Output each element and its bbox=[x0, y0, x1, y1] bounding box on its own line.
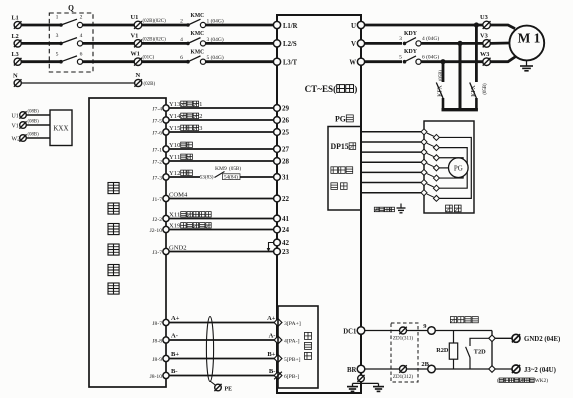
inverter terminal 29 bbox=[274, 105, 290, 113]
svg-text:(: ( bbox=[497, 377, 499, 384]
PG divider terminal 4[PA-] bbox=[274, 336, 300, 344]
svg-text:Y15: Y15 bbox=[169, 125, 181, 132]
wire node 2B to right edge bbox=[435, 368, 492, 370]
wire DP15 pin 2 to shield connector bbox=[362, 141, 421, 143]
svg-text:W: W bbox=[349, 59, 356, 67]
PG divider terminal 5[PB+] bbox=[274, 355, 301, 363]
inverter terminal 23 bbox=[274, 248, 290, 256]
svg-text:28: 28 bbox=[282, 158, 290, 166]
wire U1 to KXX bbox=[26, 114, 50, 116]
svg-text:B+: B+ bbox=[267, 351, 275, 358]
terminal GND2 (04E) bbox=[512, 334, 561, 343]
svg-text:Y14: Y14 bbox=[169, 113, 181, 120]
wire V1 to KXX bbox=[26, 124, 50, 126]
encoder wire B+ (J8-9 to 5[PB+]) bbox=[169, 358, 274, 360]
svg-text:N: N bbox=[136, 72, 141, 79]
svg-text:L2: L2 bbox=[12, 33, 19, 40]
inverter terminal 31 bbox=[274, 174, 290, 182]
junction V phase bbox=[457, 41, 462, 46]
terminal J8-10 on control unit bbox=[150, 372, 169, 379]
resistor R2D bbox=[436, 331, 457, 370]
svg-text:J2-10: J2-10 bbox=[150, 228, 163, 234]
svg-text:3: 3 bbox=[56, 33, 59, 39]
svg-text:WK2): WK2) bbox=[535, 377, 549, 384]
svg-text:L3: L3 bbox=[12, 51, 20, 58]
shielded twisted cable bbox=[206, 317, 213, 382]
svg-text:J3~2 (04U): J3~2 (04U) bbox=[524, 366, 557, 374]
svg-text:PG: PG bbox=[454, 165, 463, 173]
control wire Y15多段速3 (J7-6 to terminal 25) bbox=[169, 131, 274, 133]
svg-text:Y10: Y10 bbox=[169, 142, 181, 149]
svg-text:V3: V3 bbox=[480, 33, 489, 40]
svg-text:J1-7: J1-7 bbox=[152, 197, 162, 203]
wire U1 to contactor KMC bbox=[142, 24, 187, 27]
wire U to U3 bbox=[365, 24, 483, 27]
label connect motor ground + earth bbox=[374, 204, 405, 213]
wire BR to ZD1(312) bbox=[365, 368, 400, 370]
terminal N bbox=[13, 73, 21, 87]
inverter terminal 28 bbox=[274, 158, 290, 166]
breaker Q pole contact 5-6 bbox=[56, 51, 83, 64]
svg-text:X11: X11 bbox=[169, 212, 180, 219]
wire L2 to breaker Q pole 2 bbox=[21, 42, 61, 45]
svg-text:(05B): (05B) bbox=[229, 165, 241, 172]
control wire Y12使能 (J7-3 to terminal 31) bbox=[169, 176, 200, 178]
wire to GND2 bbox=[495, 337, 511, 339]
svg-text:24: 24 bbox=[282, 226, 290, 234]
control wire Y13多段速1 (J7-4 to terminal 29) bbox=[169, 107, 274, 109]
inverter terminal 41 bbox=[274, 215, 290, 223]
svg-text:(08B): (08B) bbox=[28, 110, 40, 115]
inverter terminal 42 bbox=[274, 239, 290, 247]
svg-text:KMC: KMC bbox=[191, 31, 205, 37]
connector pin right 6 bbox=[433, 185, 439, 191]
encoder wire A- (J8-8 to 4[PA-]) bbox=[169, 339, 274, 341]
pin link 2 bbox=[427, 143, 434, 146]
svg-text:A+: A+ bbox=[171, 315, 180, 322]
terminal L2 bbox=[12, 33, 22, 47]
svg-text:(02B)(02C): (02B)(02C) bbox=[143, 19, 167, 24]
connector pin right 1 bbox=[433, 134, 439, 140]
svg-text:4: 4 bbox=[180, 37, 183, 43]
pin link 6 bbox=[427, 184, 434, 187]
connector pin left 5 bbox=[421, 169, 427, 175]
svg-text:A-: A- bbox=[171, 333, 178, 340]
terminal below BR bbox=[358, 375, 365, 382]
svg-text:(02B): (02B) bbox=[144, 82, 156, 87]
svg-text:J7-5: J7-5 bbox=[152, 118, 162, 124]
inverter terminal DC1 bbox=[343, 327, 365, 336]
svg-text:L1/R: L1/R bbox=[283, 22, 298, 30]
svg-text:6: 6 bbox=[80, 51, 83, 57]
svg-text:2: 2 bbox=[80, 15, 83, 21]
PG divider terminal 3[PA+] bbox=[274, 319, 301, 327]
svg-text:J3-7: J3-7 bbox=[152, 250, 162, 256]
svg-text:1: 1 bbox=[199, 101, 202, 108]
node 2B bbox=[421, 361, 435, 373]
terminal J7-5 on control unit bbox=[152, 117, 169, 124]
pin link 1 bbox=[427, 133, 434, 136]
contact KM9 53(83)-54(84) bbox=[200, 165, 242, 181]
svg-text:BR: BR bbox=[347, 366, 357, 374]
star-seal bus bar bbox=[442, 108, 478, 111]
terminal on brake module top bbox=[489, 335, 496, 342]
svg-text:(05B): (05B) bbox=[483, 83, 488, 95]
label fen pin qi (vertical) bbox=[305, 332, 312, 339]
label ping bi (shield) bbox=[446, 205, 453, 212]
terminal J2-10 on control unit bbox=[150, 226, 169, 233]
inverter terminal L2/S bbox=[273, 40, 296, 48]
PG divider terminal 6[PB-] bbox=[274, 372, 299, 380]
svg-text:22: 22 bbox=[282, 195, 290, 203]
control wire Y11下行 (J7-2 to terminal 28) bbox=[169, 160, 274, 162]
svg-text:KXX: KXX bbox=[53, 125, 68, 133]
svg-text:3 (04G): 3 (04G) bbox=[207, 36, 224, 43]
terminal U1 (02B)(02C) bbox=[131, 14, 167, 29]
plug enclosure ZD1 (dashed) bbox=[391, 323, 418, 382]
svg-text:23: 23 bbox=[282, 248, 290, 256]
svg-text:DC1: DC1 bbox=[343, 327, 357, 335]
wire U phase down to contact KFX bbox=[475, 25, 478, 82]
svg-text:Q: Q bbox=[68, 4, 74, 13]
connector pin right 5 bbox=[433, 175, 439, 181]
wire U3 to motor bbox=[490, 25, 515, 29]
inverter terminal L1/R bbox=[273, 21, 298, 29]
wire node 9 to right edge bbox=[435, 330, 492, 332]
svg-text:KDY: KDY bbox=[404, 49, 418, 55]
svg-text:27: 27 bbox=[282, 146, 290, 154]
inverter terminal 22 bbox=[274, 195, 290, 203]
inverter terminal 25 bbox=[274, 129, 290, 137]
svg-text:(05B): (05B) bbox=[439, 70, 444, 82]
terminal J2-2 on control unit bbox=[152, 215, 169, 222]
contactor KMC contact 2-1 (04G) bbox=[180, 13, 224, 28]
terminal U1 (08B) bbox=[12, 110, 40, 120]
svg-text:U3: U3 bbox=[480, 14, 489, 21]
encoder PG bbox=[449, 158, 469, 178]
svg-text:J8-8: J8-8 bbox=[152, 338, 162, 344]
inverter terminal 27 bbox=[274, 146, 290, 154]
svg-text:Y12: Y12 bbox=[169, 170, 180, 177]
contact KDY 3-4 (04G) bbox=[399, 31, 439, 46]
svg-text:COM4: COM4 bbox=[169, 192, 188, 199]
wire DP15 pin 6 to shield connector bbox=[362, 182, 421, 184]
PG card DP15 interface box bbox=[328, 127, 361, 211]
wire W to KDY bbox=[365, 60, 402, 63]
svg-text:KFX: KFX bbox=[471, 84, 477, 96]
inverter output terminal V bbox=[351, 40, 365, 48]
svg-text:54(84): 54(84) bbox=[224, 174, 238, 181]
svg-text:V: V bbox=[351, 40, 356, 48]
svg-text:J7-6: J7-6 bbox=[152, 130, 162, 136]
encoder wiring loop middle bbox=[439, 148, 467, 189]
pin link 5 bbox=[427, 174, 434, 177]
encoder wire B- (J8-10 to 6[PB-]) bbox=[169, 375, 274, 377]
cable shield drain to PE bbox=[210, 381, 216, 385]
terminal V1 (08B) bbox=[12, 120, 40, 130]
svg-text:W3: W3 bbox=[480, 51, 490, 58]
junction U phase bbox=[474, 22, 479, 27]
svg-text:J7-2: J7-2 bbox=[152, 159, 162, 165]
svg-text:L2/S: L2/S bbox=[283, 40, 297, 48]
motor ground bbox=[526, 60, 528, 66]
svg-text:25: 25 bbox=[282, 129, 290, 137]
ground (left of BR) bbox=[352, 383, 354, 386]
inverter output terminal U bbox=[351, 21, 365, 29]
control wire Y14多段速2 (J7-5 to terminal 26) bbox=[169, 119, 274, 121]
terminal PE bbox=[214, 384, 232, 393]
svg-text:PE: PE bbox=[225, 386, 233, 393]
wire DP15 pin 1 to shield connector bbox=[362, 131, 421, 133]
inverter terminal BR bbox=[347, 365, 365, 374]
svg-text:KFX: KFX bbox=[438, 84, 444, 96]
label wei ji kong zhi dan yuan (vertical) bbox=[108, 183, 119, 194]
breaker Q pole contact 3-4 bbox=[56, 33, 83, 46]
relay box KXX bbox=[50, 110, 72, 146]
terminal L3 bbox=[12, 51, 22, 65]
terminal W1 (01C) bbox=[131, 51, 155, 66]
svg-text:5[PB+]: 5[PB+] bbox=[284, 357, 301, 363]
terminal J1-7 on control unit bbox=[152, 195, 169, 202]
svg-text:29: 29 bbox=[282, 105, 290, 113]
svg-text:26: 26 bbox=[282, 117, 290, 125]
wire V1 to contactor KMC bbox=[142, 42, 187, 45]
svg-text:(01C): (01C) bbox=[143, 56, 155, 61]
svg-text:J8-10: J8-10 bbox=[150, 374, 163, 380]
svg-text:U: U bbox=[351, 22, 356, 30]
svg-text:(02B)(02C): (02B)(02C) bbox=[143, 37, 167, 42]
svg-text:KM9: KM9 bbox=[215, 166, 227, 172]
terminal J7-2 on control unit bbox=[152, 158, 169, 165]
pin link 4 bbox=[427, 163, 434, 166]
wire to J3~2 bbox=[495, 368, 511, 370]
thermal contact T2D bbox=[466, 338, 492, 369]
ground (right of BR) bbox=[378, 383, 380, 386]
svg-text:L1: L1 bbox=[12, 15, 19, 22]
svg-text:T2D: T2D bbox=[474, 349, 486, 356]
control wire COM4 (J1-7 to terminal 22) bbox=[169, 198, 274, 200]
wire breaker to terminal V1 bbox=[83, 42, 135, 45]
wire W2 to KXX bbox=[26, 137, 50, 139]
svg-text:31: 31 bbox=[282, 174, 290, 182]
svg-text:4[PA-]: 4[PA-] bbox=[284, 338, 300, 344]
svg-text:Y13: Y13 bbox=[169, 101, 181, 108]
terminal U3 bbox=[480, 14, 491, 29]
svg-text:6 (04G): 6 (04G) bbox=[422, 54, 439, 61]
svg-text:B-: B- bbox=[171, 368, 178, 375]
junction W phase bbox=[440, 59, 445, 64]
svg-text:R2D: R2D bbox=[436, 347, 449, 354]
wire W3 to motor bbox=[490, 57, 515, 62]
inverter main unit CT~ES bbox=[277, 15, 361, 393]
inverter output terminal W bbox=[349, 58, 364, 66]
svg-text:2B: 2B bbox=[421, 361, 429, 368]
svg-text:U1: U1 bbox=[131, 14, 139, 21]
svg-text:J8-9: J8-9 bbox=[152, 357, 162, 363]
wire breaker to terminal U1 bbox=[83, 24, 135, 27]
svg-text:J8-7: J8-7 bbox=[152, 321, 162, 327]
connector pin left 2 bbox=[421, 139, 427, 145]
inverter terminal 24 bbox=[274, 226, 290, 234]
wire L3 to breaker Q pole 3 bbox=[21, 60, 61, 63]
contactor KMC contact 6-5 (04G) bbox=[180, 50, 224, 65]
connector pin right 2 bbox=[433, 145, 439, 151]
svg-text:3[PA+]: 3[PA+] bbox=[284, 321, 301, 327]
svg-text:B+: B+ bbox=[171, 351, 179, 358]
terminal J3-7 on control unit bbox=[152, 248, 169, 255]
terminal W2 (08B) bbox=[12, 133, 40, 143]
terminal ZD1(312) bbox=[393, 365, 413, 380]
contactor KMC contact 4-3 (04G) bbox=[180, 31, 224, 46]
terminal J7-1 on control unit bbox=[152, 146, 169, 153]
wire KDY to W3 bbox=[421, 60, 483, 63]
jumper terminal 42 to GND2 wire with arrow bbox=[267, 243, 274, 253]
control wire X19变频器运行 (J2-10 to terminal 24) bbox=[169, 229, 274, 231]
svg-text:42: 42 bbox=[282, 239, 290, 247]
shield enclosure bbox=[424, 121, 474, 213]
svg-text:M 1: M 1 bbox=[518, 31, 541, 46]
wire KDY to V3 bbox=[421, 42, 483, 45]
wire V3 to motor bbox=[490, 42, 509, 45]
wire W phase down to contact KFX bbox=[442, 62, 445, 82]
wire L1 to breaker Q pole 1 bbox=[21, 24, 61, 27]
connector pin right 3 bbox=[433, 155, 439, 161]
terminal J8-8 on control unit bbox=[152, 337, 169, 344]
terminal J8-7 on control unit bbox=[152, 319, 169, 326]
terminal J8-9 on control unit bbox=[152, 355, 169, 362]
wire KMC to inverter input 3 bbox=[206, 60, 274, 63]
wire W1 to contactor KMC bbox=[142, 60, 187, 63]
svg-text:2: 2 bbox=[199, 113, 202, 120]
svg-text:5: 5 bbox=[399, 55, 402, 61]
svg-text:J7-4: J7-4 bbox=[152, 106, 162, 112]
svg-text:V1: V1 bbox=[131, 32, 139, 39]
connector pin right 4 bbox=[433, 165, 439, 171]
wire KMC to inverter input 1 bbox=[206, 24, 274, 27]
connector pin right 7 bbox=[433, 195, 439, 201]
contact KFX (right) bbox=[470, 83, 488, 111]
encoder wiring center bbox=[439, 167, 450, 169]
contact KDY 5-6 (04G) bbox=[399, 49, 439, 64]
wire to earth bar bbox=[353, 382, 379, 384]
terminal on brake module bottom bbox=[489, 366, 496, 373]
label braking resistor title bbox=[450, 317, 456, 323]
wire ZD1(312) to node 2B bbox=[407, 368, 428, 370]
svg-text:CT~ES(: CT~ES( bbox=[305, 84, 337, 95]
connector pin left 1 bbox=[421, 129, 427, 135]
svg-text:KMC: KMC bbox=[191, 13, 205, 19]
terminal J7-6 on control unit bbox=[152, 129, 169, 136]
svg-text:A-: A- bbox=[269, 333, 276, 340]
svg-text:6: 6 bbox=[180, 55, 183, 61]
wire DP15 pin 3 to shield connector bbox=[362, 151, 421, 153]
inverter terminal 26 bbox=[274, 117, 290, 125]
svg-text:53(83): 53(83) bbox=[200, 174, 214, 181]
microcomputer control unit box bbox=[89, 98, 166, 387]
circuit breaker Q (dashed enclosure) bbox=[49, 4, 93, 73]
svg-text:J7-1: J7-1 bbox=[152, 147, 162, 153]
control wire GND2 (J3-7 to terminal 23) bbox=[169, 251, 274, 253]
control wire Y10上行 (J7-1 to terminal 27) bbox=[169, 148, 274, 150]
wire ZD1(311) to node 9 bbox=[407, 330, 428, 332]
node 9 bbox=[423, 323, 435, 334]
svg-text:J7-3: J7-3 bbox=[152, 175, 162, 181]
svg-text:(08B): (08B) bbox=[28, 120, 40, 125]
PG divider output box bbox=[278, 306, 318, 388]
svg-text:KDY: KDY bbox=[404, 31, 418, 37]
svg-text:3: 3 bbox=[399, 36, 402, 42]
svg-text:GND2 (04E): GND2 (04E) bbox=[524, 335, 561, 343]
svg-text:1 (04G): 1 (04G) bbox=[207, 18, 224, 25]
motor M1 bbox=[509, 26, 544, 61]
svg-text:L3/T: L3/T bbox=[283, 59, 297, 67]
svg-text:J2-2: J2-2 bbox=[152, 217, 162, 223]
wire V to KDY bbox=[365, 42, 402, 45]
svg-text:): ) bbox=[354, 84, 357, 95]
breaker Q pole contact 1-2 bbox=[56, 15, 83, 28]
svg-text:N: N bbox=[13, 73, 18, 80]
svg-text:V1: V1 bbox=[12, 124, 19, 130]
wire DP15 pin 5 to shield connector bbox=[362, 171, 421, 173]
wire DP15 pin 7 to shield connector bbox=[362, 192, 421, 194]
wire right edge vertical bbox=[491, 331, 493, 370]
encoder wiring loop outer bbox=[439, 137, 471, 198]
svg-text:PG: PG bbox=[335, 114, 346, 124]
wire DC1 to ZD1(311) bbox=[365, 330, 400, 332]
svg-text:41: 41 bbox=[282, 215, 290, 223]
wire V phase down to bus bbox=[459, 43, 462, 110]
svg-text:(08B): (08B) bbox=[28, 133, 40, 138]
control wire X11变频器故障 (J2-2 to terminal 41) bbox=[169, 218, 274, 220]
svg-text:5 (04G): 5 (04G) bbox=[207, 54, 224, 61]
contact KFX (left) bbox=[436, 70, 444, 111]
encoder wire A+ (J8-7 to 3[PA+]) bbox=[169, 322, 274, 324]
svg-text:6[PB-]: 6[PB-] bbox=[284, 374, 299, 380]
pin link 3 bbox=[427, 153, 434, 156]
svg-text:2: 2 bbox=[180, 19, 183, 25]
svg-text:ZD1(311): ZD1(311) bbox=[393, 335, 413, 342]
svg-text:KMC: KMC bbox=[191, 50, 205, 56]
terminal W3 bbox=[480, 51, 491, 66]
svg-text:B-: B- bbox=[269, 368, 276, 375]
terminal J7-4 on control unit bbox=[152, 105, 169, 112]
svg-text:GND2: GND2 bbox=[169, 245, 187, 252]
svg-text:1: 1 bbox=[56, 15, 59, 21]
svg-text:Y11: Y11 bbox=[169, 154, 180, 161]
svg-text:4 (04G): 4 (04G) bbox=[422, 35, 439, 42]
svg-text:A+: A+ bbox=[267, 315, 276, 322]
terminal V1 (02B)(02C) bbox=[131, 32, 167, 47]
wire breaker to terminal W1 bbox=[83, 60, 135, 63]
svg-text:DP15: DP15 bbox=[331, 142, 349, 151]
connector pin left 7 bbox=[421, 190, 427, 196]
connector pin left 3 bbox=[421, 149, 427, 155]
svg-text:4: 4 bbox=[80, 33, 83, 39]
connector pin left 4 bbox=[421, 159, 427, 165]
encoder wiring loop inner bbox=[439, 158, 463, 178]
terminal V3 bbox=[480, 33, 491, 48]
terminal ZD1(311) bbox=[393, 327, 413, 342]
svg-text:5: 5 bbox=[56, 51, 59, 57]
wire N bbox=[21, 82, 134, 84]
terminal J7-3 on control unit bbox=[152, 174, 169, 181]
label encoder bbox=[331, 167, 338, 174]
svg-text:X19: X19 bbox=[169, 223, 181, 230]
svg-text:W2: W2 bbox=[12, 137, 21, 143]
label interface bbox=[331, 183, 338, 190]
terminal N (02B) bbox=[134, 72, 155, 87]
pin link 7 bbox=[427, 194, 434, 197]
